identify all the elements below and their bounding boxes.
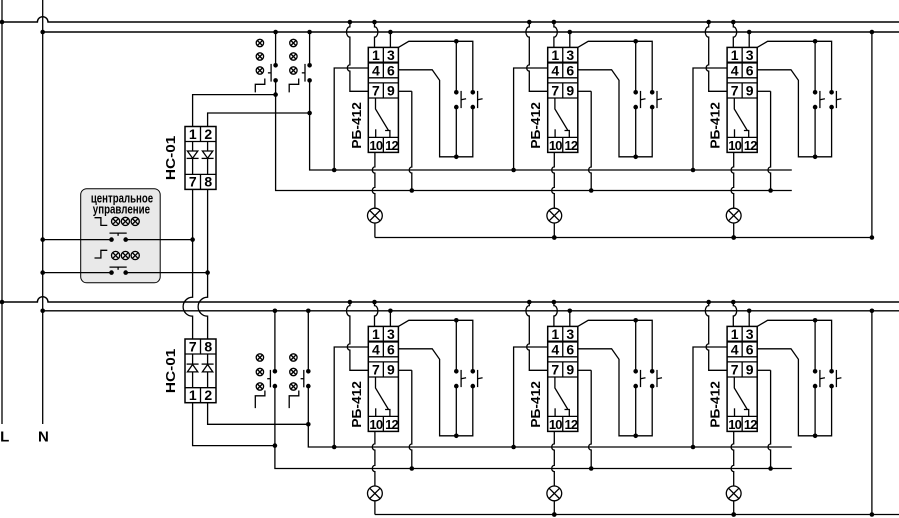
diode VD2 in U1 — [202, 142, 214, 175]
relay module K4 (РБ-412) body — [368, 326, 398, 431]
relay K6 internal contact — [734, 377, 747, 410]
svg-text:1: 1 — [189, 126, 197, 142]
lamp HL4 — [368, 486, 383, 501]
svg-text:1: 1 — [372, 47, 380, 63]
wire U2 pin 2 to button SB4 — [208, 403, 309, 425]
switch SA1.2 — [471, 90, 476, 95]
svg-text:РБ-412: РБ-412 — [350, 381, 364, 428]
svg-text:12: 12 — [564, 417, 577, 432]
wire N rail to SB5 — [43, 239, 112, 241]
svg-text:1: 1 — [551, 326, 559, 342]
svg-text:2: 2 — [204, 387, 212, 403]
wire relay K2 pin 3 to switches — [578, 41, 652, 92]
switch SA3.2 — [829, 90, 834, 95]
svg-text:10: 10 — [369, 138, 382, 153]
wire N bus lower — [43, 310, 899, 312]
wire L bus to relay K6 pin 1 — [731, 300, 736, 305]
wire group-1 button to pin-9 bus upper — [276, 80, 792, 190]
wire relay K5 pin 4 to control bus — [514, 347, 548, 447]
lamp HL2 — [547, 208, 562, 223]
svg-text:2: 2 — [204, 126, 212, 142]
wire L bus to relay K2 pin 1 — [552, 20, 557, 25]
wire N bus upper — [43, 31, 899, 33]
svg-text:4: 4 — [551, 62, 559, 78]
lamp group EL1 — [256, 39, 263, 74]
svg-text:9: 9 — [566, 82, 574, 98]
svg-text:6: 6 — [746, 341, 754, 357]
switch SA5.1 — [633, 369, 638, 374]
wire switches to relay K4 pin 6 — [455, 386, 457, 436]
lamp HL6 — [726, 486, 741, 501]
svg-text:РБ-412: РБ-412 — [529, 381, 543, 428]
svg-text:9: 9 — [566, 361, 574, 377]
wire L bus to relay K5 pin 1 — [552, 300, 557, 305]
switch SA1.1 — [454, 90, 459, 95]
lamp icons in A1 row 1 — [112, 217, 140, 225]
wire U1 pin 8 down to U2 pin 8 — [198, 189, 207, 339]
svg-text:12: 12 — [385, 138, 398, 153]
push-button SB2 — [289, 30, 312, 93]
svg-text:1: 1 — [372, 326, 380, 342]
lamp group EL4 — [290, 354, 297, 390]
wire switches to relay K1 pin 6 — [455, 107, 457, 157]
wire L bus lower — [2, 297, 899, 302]
relay module K2 (РБ-412) body — [548, 47, 578, 152]
wire relay K6 pin 10 to lamp — [731, 431, 734, 486]
svg-text:НС-01: НС-01 — [164, 136, 178, 181]
wire relay K4 pin 4 to control bus — [334, 347, 368, 447]
svg-text:10: 10 — [549, 138, 562, 153]
svg-text:3: 3 — [566, 326, 574, 342]
wire U1 pin 7 down to U2 pin 7 — [183, 189, 192, 339]
wire relay K3 pin 3 to switches — [757, 41, 831, 92]
wire L bus to relay K4 pin 1 — [372, 300, 377, 305]
wire lamp HL3 to return — [733, 223, 735, 238]
wire switches to relay K2 pin 6 — [635, 107, 637, 157]
push contact SB5 in A1 (all off) — [109, 233, 128, 242]
svg-text:10: 10 — [549, 417, 562, 432]
wire relay K5 pin 9 to control bus — [578, 369, 591, 371]
wire relay K2 pin 9 to control bus — [578, 90, 591, 92]
wire group-2 button to pin-4 bus lower — [308, 386, 792, 447]
svg-text:3: 3 — [746, 326, 754, 342]
wire relay K3 pin 9 to control bus — [757, 90, 770, 92]
off-step glyph in A1 row 1 — [95, 218, 108, 226]
wire N bus to relay K5 pin 3 — [568, 309, 573, 314]
wire lamp HL6 to return — [733, 501, 735, 515]
push-button SB1 — [255, 30, 278, 93]
wire L bus to relay K5 pin 7 — [527, 300, 532, 305]
relay K4 internal contact — [376, 377, 389, 410]
wire N bus to relay K2 pin 3 — [568, 30, 573, 35]
svg-text:12: 12 — [385, 417, 398, 432]
switch SA4.2 — [471, 369, 476, 374]
N rail (neutral) vertical — [42, 0, 44, 424]
svg-text:10: 10 — [728, 138, 741, 153]
wire N bus to relay K6 pin 3 — [747, 309, 752, 314]
wire L bus upper — [2, 17, 899, 22]
switch SA2.2 — [650, 90, 655, 95]
wire N bus to relay K4 pin 3 — [388, 309, 393, 314]
wire relay K6 pin 9 to control bus — [757, 369, 770, 371]
switch SA5.2 — [650, 369, 655, 374]
wire N bus to lamp return upper — [871, 32, 873, 238]
switch SA3.1 — [813, 90, 818, 95]
wire switches to relay K3 pin 6 — [814, 107, 816, 157]
svg-text:управление: управление — [93, 202, 150, 217]
svg-text:7: 7 — [372, 361, 380, 377]
wire U1 pin 2 to button SB2 — [208, 113, 310, 127]
relay K5 internal contact — [555, 377, 568, 410]
svg-text:12: 12 — [744, 138, 757, 153]
wire lamp return bus upper — [375, 237, 872, 239]
wire U1 pin 1 to button SB1 — [193, 95, 276, 127]
wire relay K3 pin 4 to control bus — [693, 68, 727, 170]
wire SB6 to U1 pin 8 — [126, 272, 208, 274]
switch SA6.1 — [813, 369, 818, 374]
relay module K5 (РБ-412) body — [548, 326, 578, 431]
relay K1 internal contact — [376, 98, 389, 131]
wire L bus to relay K2 pin 7 — [527, 20, 532, 25]
wire relay K1 pin 10 to lamp — [372, 152, 375, 208]
svg-text:6: 6 — [387, 341, 395, 357]
wire relay K1 pin 4 to control bus — [334, 68, 368, 170]
wire L bus to relay K1 pin 7 — [348, 20, 353, 25]
lamp group EL2 — [290, 39, 297, 74]
svg-text:3: 3 — [566, 47, 574, 63]
svg-text:РБ-412: РБ-412 — [350, 102, 364, 149]
svg-text:9: 9 — [746, 361, 754, 377]
svg-text:НС-01: НС-01 — [164, 349, 178, 394]
central control box A1 — [81, 189, 161, 283]
svg-text:6: 6 — [746, 62, 754, 78]
relay K3 internal contact — [734, 98, 747, 131]
diode VD4 in U2 — [202, 354, 214, 388]
wire relay K6 pin 4 to control bus — [693, 347, 727, 447]
wire N bus to relay K3 pin 3 — [747, 30, 752, 35]
switch SA4.1 — [454, 369, 459, 374]
svg-text:4: 4 — [731, 62, 739, 78]
wire relay K1 pin 3 to switches — [398, 41, 472, 92]
wire SB5 to U1 pin 7 — [126, 239, 193, 241]
wire relay K4 pin 9 to control bus — [398, 369, 411, 371]
svg-text:РБ-412: РБ-412 — [709, 381, 723, 428]
svg-text:1: 1 — [731, 47, 739, 63]
svg-text:1: 1 — [731, 326, 739, 342]
svg-text:1: 1 — [189, 387, 197, 403]
svg-text:3: 3 — [746, 47, 754, 63]
wire relay K5 pin 3 to switches — [578, 320, 652, 371]
relay K2 internal contact — [555, 98, 568, 131]
svg-text:9: 9 — [387, 361, 395, 377]
switch SA2.1 — [633, 90, 638, 95]
lamp HL3 — [726, 208, 741, 223]
svg-text:6: 6 — [387, 62, 395, 78]
wire relay K4 pin 3 to switches — [398, 320, 472, 371]
wire switches to relay K5 pin 6 — [635, 386, 637, 436]
lamp icons in A1 row 2 — [112, 251, 140, 259]
wire group-2 button to pin-4 bus upper — [310, 80, 792, 170]
wire relay K2 pin 10 to lamp — [552, 152, 555, 208]
wire relay K4 pin 10 to lamp — [372, 431, 375, 486]
push-button SB4 — [289, 309, 310, 409]
svg-text:РБ-412: РБ-412 — [529, 102, 543, 149]
wire relay K2 pin 4 to control bus — [514, 68, 548, 170]
svg-text:4: 4 — [551, 341, 559, 357]
wire switches to relay K6 pin 6 — [814, 386, 816, 436]
wire lamp return bus lower — [375, 514, 899, 516]
relay module K6 (РБ-412) body — [727, 326, 757, 431]
wire relay K5 pin 10 to lamp — [552, 431, 555, 486]
svg-text:9: 9 — [387, 82, 395, 98]
wire L bus to relay K1 pin 1 — [372, 20, 377, 25]
relay module K3 (РБ-412) body — [727, 47, 757, 152]
push contact SB6 in A1 (all on) — [109, 267, 128, 275]
lamp group EL3 — [256, 354, 263, 390]
diode block U2 (НС-01) body — [185, 338, 216, 403]
wire L bus to relay K4 pin 7 — [348, 300, 353, 305]
svg-text:7: 7 — [189, 174, 197, 190]
wire lamp HL5 to return — [553, 501, 555, 515]
lamp HL5 — [547, 486, 562, 501]
wire relay K3 pin 10 to lamp — [731, 152, 734, 208]
svg-text:7: 7 — [551, 361, 559, 377]
svg-text:4: 4 — [731, 341, 739, 357]
svg-text:9: 9 — [746, 82, 754, 98]
wire relay K6 pin 3 to switches — [757, 320, 831, 371]
wire relay K1 pin 9 to control bus — [398, 90, 411, 92]
diode VD1 in U1 — [187, 142, 199, 175]
svg-text:L: L — [0, 428, 9, 445]
wire group-1 button to pin-9 bus lower — [275, 386, 792, 468]
svg-text:10: 10 — [728, 417, 741, 432]
L rail (phase) vertical — [1, 0, 3, 424]
svg-text:12: 12 — [744, 417, 757, 432]
wire N bus to lamp return lower — [871, 311, 873, 515]
wire N rail to SB6 — [43, 272, 112, 274]
wire lamp HL1 to return — [374, 223, 376, 238]
svg-text:8: 8 — [204, 338, 212, 354]
wire L bus to relay K6 pin 7 — [706, 300, 711, 305]
relay module K1 (РБ-412) body — [368, 47, 398, 152]
svg-text:4: 4 — [372, 341, 380, 357]
svg-text:8: 8 — [204, 174, 212, 190]
svg-text:N: N — [38, 428, 49, 445]
lamp HL1 — [368, 208, 383, 223]
wire N bus to relay K1 pin 3 — [388, 30, 393, 35]
svg-text:3: 3 — [387, 47, 395, 63]
wire lamp HL4 to return — [374, 501, 376, 515]
wire lamp HL2 to return — [553, 223, 555, 238]
wire L bus to relay K3 pin 1 — [731, 20, 736, 25]
wire U2 pin 1 to button SB3 — [193, 403, 275, 446]
svg-text:1: 1 — [551, 47, 559, 63]
svg-text:РБ-412: РБ-412 — [709, 102, 723, 149]
svg-text:10: 10 — [369, 417, 382, 432]
svg-text:6: 6 — [566, 341, 574, 357]
diode VD3 in U2 — [187, 354, 199, 388]
svg-text:7: 7 — [731, 82, 739, 98]
svg-text:6: 6 — [566, 62, 574, 78]
diode block U1 (НС-01) body — [185, 126, 216, 190]
svg-text:7: 7 — [551, 82, 559, 98]
svg-text:7: 7 — [731, 361, 739, 377]
svg-text:3: 3 — [387, 326, 395, 342]
on-step glyph in A1 row 2 — [95, 250, 108, 258]
switch SA6.2 — [829, 369, 834, 374]
wire L bus to relay K3 pin 7 — [706, 20, 711, 25]
svg-text:4: 4 — [372, 62, 380, 78]
svg-text:7: 7 — [189, 338, 197, 354]
svg-text:7: 7 — [372, 82, 380, 98]
svg-text:12: 12 — [564, 138, 577, 153]
push-button SB3 — [255, 309, 277, 409]
